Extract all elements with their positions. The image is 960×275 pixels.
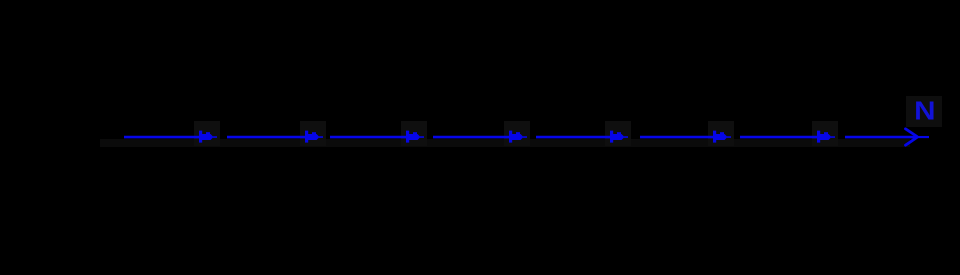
ghost box at M1 <box>194 121 220 146</box>
ghost box at M2 <box>300 121 326 146</box>
arrowhead M5 <box>610 131 625 143</box>
ghost box at M6 <box>708 121 734 146</box>
wire stub after M7 <box>831 136 835 138</box>
wire stub after M1 <box>213 136 217 138</box>
ghost box at node N <box>906 96 942 127</box>
arrowhead final barbed <box>906 129 918 145</box>
arrowhead M3 <box>406 131 421 143</box>
ghost box at M4 <box>504 121 530 146</box>
wire segment 5 <box>536 136 612 139</box>
wire stub after final arrowhead <box>917 136 929 138</box>
wire segment 2 <box>227 136 307 139</box>
ghost box at M3 <box>401 121 427 146</box>
ghost band under wire <box>100 139 910 147</box>
wire segment 1 <box>124 136 201 139</box>
wire segment 3 <box>330 136 408 139</box>
ghost box at M7 <box>812 121 838 146</box>
node N label <box>914 96 935 125</box>
wire stub after M2 <box>319 136 323 138</box>
wire stub after M6 <box>727 136 731 138</box>
wire stub after M3 <box>420 136 424 138</box>
arrowhead M6 <box>713 131 728 143</box>
wire stub after M4 <box>523 136 527 138</box>
wire segment 4 <box>433 136 511 139</box>
arrowhead M7 <box>817 131 832 143</box>
ghost box at M5 <box>605 121 631 146</box>
arrowhead M2 <box>305 131 320 143</box>
svg-text:N: N <box>914 96 935 125</box>
wire segment 8 <box>845 136 918 139</box>
arrowhead M4 <box>509 131 524 143</box>
wire segment 7 <box>740 136 819 139</box>
wire segment 6 <box>640 136 715 139</box>
wire stub after M5 <box>624 136 628 138</box>
arrowhead M1 <box>199 131 214 143</box>
